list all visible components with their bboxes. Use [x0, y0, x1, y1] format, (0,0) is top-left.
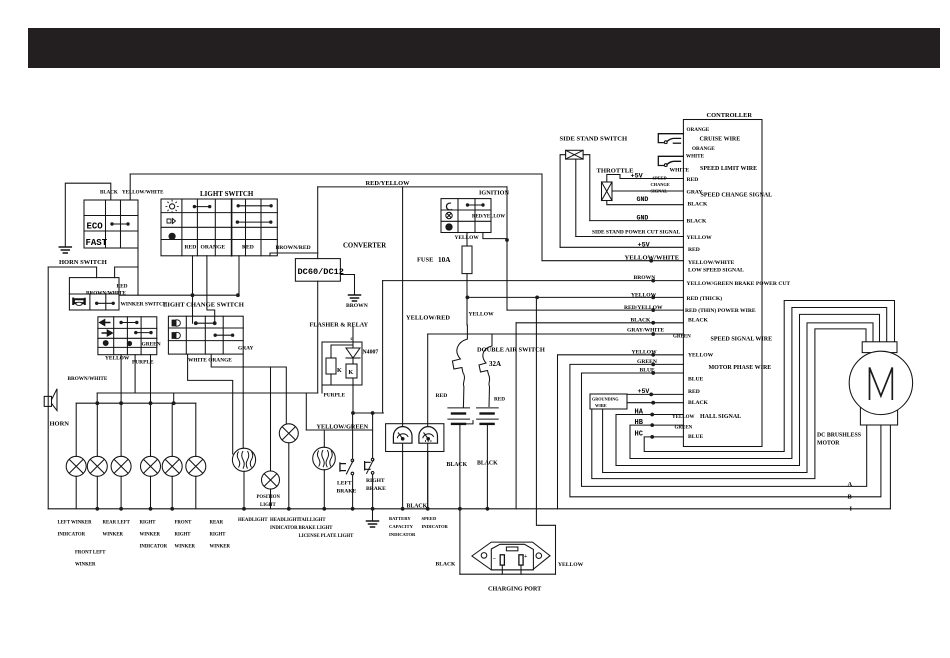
svg-text:GREEN: GREEN	[142, 342, 161, 348]
svg-text:+5V: +5V	[638, 242, 651, 250]
svg-text:FRONT: FRONT	[175, 521, 193, 526]
svg-text:BLACK: BLACK	[407, 504, 428, 510]
svg-text:RED: RED	[494, 397, 505, 403]
svg-text:YELLOW/GREEN: YELLOW/GREEN	[317, 424, 369, 431]
svg-text:FUSE: FUSE	[417, 257, 433, 264]
svg-text:SIDE STAND POWER CUT SIGNAL: SIDE STAND POWER CUT SIGNAL	[592, 230, 681, 236]
svg-text:+5V: +5V	[631, 173, 644, 181]
svg-text:SIDE STAND SWITCH: SIDE STAND SWITCH	[560, 136, 629, 143]
svg-text:RED: RED	[688, 247, 700, 253]
svg-text:ORANGE: ORANGE	[687, 127, 710, 133]
svg-text:WINKER SWITCH: WINKER SWITCH	[121, 302, 168, 308]
svg-text:YELLOW: YELLOW	[105, 356, 130, 362]
svg-text:WINKER: WINKER	[175, 545, 196, 550]
svg-text:LICENSE PLATE LIGHT: LICENSE PLATE LIGHT	[299, 534, 355, 539]
svg-text:YELLOW/WHITE: YELLOW/WHITE	[625, 255, 680, 262]
svg-text:INDICATOR: INDICATOR	[140, 545, 168, 550]
svg-text:BLUE: BLUE	[688, 377, 704, 383]
svg-text:BLUE: BLUE	[688, 434, 704, 440]
svg-text:HALL SIGNAL: HALL SIGNAL	[700, 414, 741, 420]
svg-text:FLASHER & RELAY: FLASHER & RELAY	[310, 322, 369, 329]
svg-text:CRUISE WIRE: CRUISE WIRE	[700, 137, 741, 143]
svg-text:WIRE: WIRE	[595, 403, 607, 408]
svg-text:BROWN/WHITE: BROWN/WHITE	[68, 376, 108, 382]
svg-text:BLACK: BLACK	[447, 462, 468, 468]
svg-text:WINKER: WINKER	[210, 545, 231, 550]
svg-text:LEFT WINKER: LEFT WINKER	[58, 521, 93, 526]
svg-text:HEADLIGHT: HEADLIGHT	[238, 518, 268, 523]
svg-text:HA: HA	[635, 409, 644, 417]
svg-text:DOUBLE AIR SWITCH: DOUBLE AIR SWITCH	[477, 347, 545, 354]
svg-text:PURPLE: PURPLE	[324, 393, 346, 399]
svg-text:RED/YELLOW: RED/YELLOW	[366, 180, 411, 187]
svg-text:GREEN: GREEN	[637, 359, 657, 365]
svg-text:BROWN/RED: BROWN/RED	[276, 245, 311, 251]
svg-text:CAPACITY: CAPACITY	[389, 524, 414, 529]
svg-text:RED/YELLOW: RED/YELLOW	[472, 215, 505, 220]
svg-text:RIGHT: RIGHT	[366, 478, 385, 484]
svg-text:BLACK: BLACK	[688, 201, 709, 207]
svg-text:RED: RED	[185, 245, 197, 251]
svg-text:GRAY: GRAY	[238, 346, 253, 352]
svg-text:LEFT: LEFT	[337, 481, 352, 487]
svg-text:YELLOW: YELLOW	[687, 235, 713, 241]
svg-text:RIGHT: RIGHT	[175, 533, 192, 538]
svg-text:YELLOW: YELLOW	[672, 415, 695, 420]
svg-text:WHITE ORANGE: WHITE ORANGE	[188, 358, 232, 364]
svg-text:CONTROLLER: CONTROLLER	[707, 112, 753, 119]
svg-text:10A: 10A	[438, 256, 451, 264]
svg-text:BLACK: BLACK	[100, 191, 118, 196]
svg-text:WHITE: WHITE	[686, 154, 705, 160]
svg-text:N4007: N4007	[363, 350, 379, 356]
svg-text:LOW SPEED SIGNAL: LOW SPEED SIGNAL	[688, 268, 744, 274]
svg-text:WINKER: WINKER	[75, 563, 96, 568]
svg-text:YELLOW: YELLOW	[455, 235, 480, 241]
svg-text:SPEED SIGNAL WIRE: SPEED SIGNAL WIRE	[711, 337, 773, 343]
svg-text:INDICATOR: INDICATOR	[270, 526, 298, 531]
svg-text:PURPLE: PURPLE	[132, 360, 154, 366]
svg-text:BLACK: BLACK	[477, 461, 498, 467]
svg-text:MOTOR: MOTOR	[817, 441, 840, 447]
svg-text:BROWN: BROWN	[346, 303, 368, 309]
svg-text:BROWN/WHITE: BROWN/WHITE	[86, 291, 126, 297]
svg-text:BRAKE: BRAKE	[337, 489, 357, 495]
svg-text:DC BRUSHLESS: DC BRUSHLESS	[817, 433, 861, 439]
svg-text:CHARGING PORT: CHARGING PORT	[488, 586, 542, 593]
svg-text:GREEN: GREEN	[675, 426, 693, 431]
svg-text:SPEED: SPEED	[422, 516, 437, 521]
svg-text:GRAY/WHITE: GRAY/WHITE	[627, 328, 664, 334]
svg-text:BRAKE LIGHT: BRAKE LIGHT	[299, 526, 334, 531]
svg-text:BLACK: BLACK	[688, 400, 709, 406]
svg-text:+: +	[524, 554, 528, 560]
svg-text:B: B	[848, 494, 853, 501]
svg-text:K: K	[349, 370, 354, 376]
svg-text:YELLOW: YELLOW	[469, 312, 495, 318]
svg-text:SPEED LIMIT WIRE: SPEED LIMIT WIRE	[700, 166, 757, 172]
svg-text:FRONT LEFT: FRONT LEFT	[75, 551, 106, 556]
svg-text:CONVERTER: CONVERTER	[343, 243, 386, 250]
svg-text:INDICATOR: INDICATOR	[389, 532, 416, 537]
svg-text:IGNITION: IGNITION	[479, 190, 509, 197]
svg-text:BLACK: BLACK	[436, 562, 457, 568]
svg-text:RED: RED	[436, 393, 448, 399]
svg-text:INDICATOR: INDICATOR	[422, 524, 449, 529]
svg-text:WINKER: WINKER	[140, 533, 161, 538]
svg-text:DC60/DC12: DC60/DC12	[298, 267, 344, 277]
svg-text:WINKER: WINKER	[103, 533, 124, 538]
svg-text:HEADLIGHT: HEADLIGHT	[270, 518, 300, 523]
svg-text:HC: HC	[635, 431, 643, 439]
svg-text:RED: RED	[117, 284, 128, 290]
svg-text:32A: 32A	[489, 360, 501, 368]
svg-text:YELLOW: YELLOW	[558, 562, 584, 568]
svg-text:YELLOW/WHITE: YELLOW/WHITE	[122, 191, 164, 196]
svg-text:MOTOR PHASE WIRE: MOTOR PHASE WIRE	[709, 365, 772, 371]
svg-text:CHANGE: CHANGE	[651, 182, 670, 187]
svg-text:YELLOW/RED: YELLOW/RED	[406, 315, 450, 322]
svg-text:GND: GND	[637, 215, 649, 222]
svg-text:A: A	[848, 481, 853, 488]
svg-text:BLACK: BLACK	[688, 318, 709, 324]
svg-text:LIGHT CHANGE SWITCH: LIGHT CHANGE SWITCH	[163, 302, 245, 309]
svg-text:K: K	[337, 368, 342, 374]
svg-text:RED (THIN) POWER WIRE: RED (THIN) POWER WIRE	[685, 307, 756, 314]
svg-text:BRAKE: BRAKE	[366, 486, 386, 492]
svg-text:BATTERY: BATTERY	[389, 516, 411, 521]
svg-text:RIGHT: RIGHT	[210, 533, 227, 538]
svg-text:BLUE: BLUE	[640, 368, 656, 374]
svg-text:RED (THICK): RED (THICK)	[687, 295, 723, 302]
svg-text:WHITE: WHITE	[670, 168, 690, 174]
svg-text:HORN SWITCH: HORN SWITCH	[59, 259, 107, 266]
svg-text:TAILLIGHT: TAILLIGHT	[299, 518, 327, 523]
svg-text:YELLOW: YELLOW	[688, 353, 714, 359]
svg-text:RED/YELLOW: RED/YELLOW	[624, 305, 663, 311]
svg-text:YELLOW/WHITE: YELLOW/WHITE	[688, 260, 735, 266]
svg-text:GND: GND	[637, 196, 649, 203]
svg-text:SPEED CHANGE SIGNAL: SPEED CHANGE SIGNAL	[701, 193, 773, 199]
svg-text:RED: RED	[242, 245, 254, 251]
svg-text:RED: RED	[687, 177, 699, 183]
svg-text:INDICATOR: INDICATOR	[58, 533, 86, 538]
svg-text:POSITION: POSITION	[257, 495, 281, 500]
svg-text:REAR: REAR	[210, 521, 224, 526]
svg-text:SPEED: SPEED	[653, 176, 667, 181]
svg-text:FAST: FAST	[86, 238, 108, 248]
svg-text:LIGHT SWITCH: LIGHT SWITCH	[200, 190, 254, 198]
svg-text:YELLOW: YELLOW	[632, 350, 658, 356]
svg-text:YELLOW: YELLOW	[631, 293, 657, 299]
svg-text:SIGNAL: SIGNAL	[651, 189, 668, 194]
svg-text:LIGHT: LIGHT	[260, 503, 277, 508]
svg-text:BLACK: BLACK	[631, 318, 652, 324]
svg-text:ECO: ECO	[87, 222, 104, 232]
svg-text:GROUNDING: GROUNDING	[592, 397, 619, 402]
svg-text:−: −	[493, 557, 497, 563]
svg-text:ORANGE: ORANGE	[692, 146, 715, 152]
svg-text:GREEN: GREEN	[673, 335, 691, 340]
svg-text:RIGHT: RIGHT	[140, 521, 157, 526]
svg-text:RED: RED	[688, 389, 700, 395]
svg-text:HORN: HORN	[50, 421, 70, 428]
svg-text:ORANGE: ORANGE	[201, 245, 226, 251]
svg-text:BLACK: BLACK	[687, 219, 708, 225]
svg-text:BROWN: BROWN	[634, 275, 656, 281]
svg-text:+5V: +5V	[638, 388, 650, 395]
svg-text:THROTTLE: THROTTLE	[597, 168, 635, 175]
svg-text:REAR LEFT: REAR LEFT	[103, 521, 131, 526]
svg-text:HB: HB	[635, 419, 644, 427]
svg-text:YELLOW/GREEN BRAKE POWER CUT: YELLOW/GREEN BRAKE POWER CUT	[687, 281, 791, 287]
